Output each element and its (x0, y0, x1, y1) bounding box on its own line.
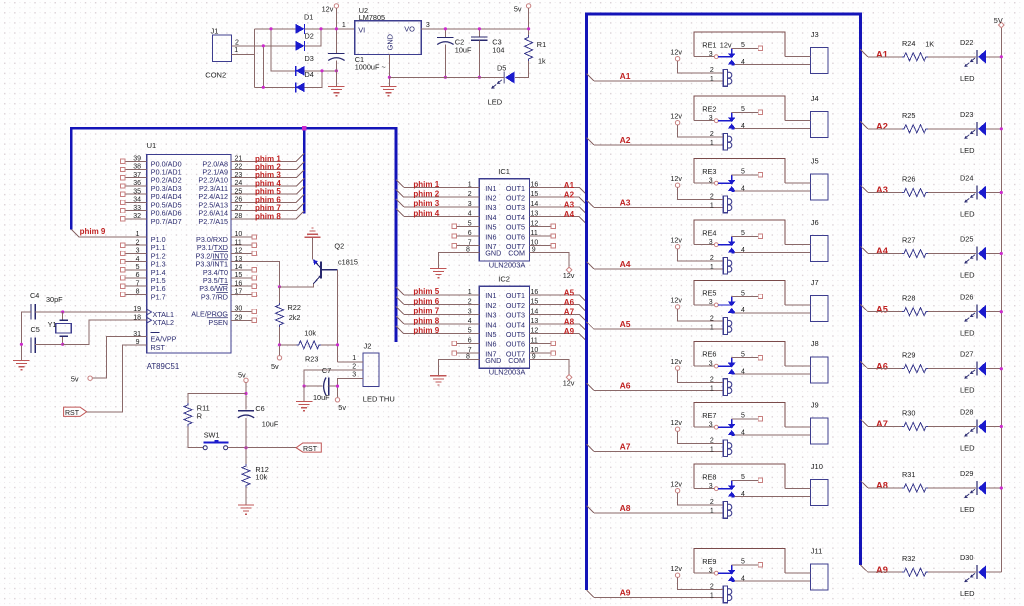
svg-text:OUT5: OUT5 (506, 330, 525, 339)
svg-text:IN1: IN1 (485, 291, 496, 300)
wire (868, 368, 902, 370)
wire (868, 192, 902, 194)
wire bus entry A3 (587, 200, 594, 207)
svg-text:VO: VO (404, 25, 415, 34)
svg-text:1: 1 (342, 22, 346, 29)
svg-text:IN4: IN4 (485, 320, 496, 329)
svg-text:IN2: IN2 (485, 194, 496, 203)
svg-text:RE2: RE2 (702, 104, 716, 113)
wire 12v to RE4 coil (678, 249, 724, 261)
led row 1: R24 / D22 (860, 38, 1003, 83)
wire phim 8 (pin 28 to bus) (231, 211, 304, 219)
led row 7: R30 / D28 (860, 408, 1003, 453)
wire phim 4 to IC1 IN4 (396, 209, 479, 217)
pin 5 IC1 IN5 n/c (452, 224, 479, 228)
svg-text:RE4: RE4 (702, 228, 716, 237)
pin 12 P3.2/INT0 (196, 248, 257, 261)
pin 37 P0.2/AD2 (121, 172, 182, 185)
svg-text:GND: GND (485, 356, 501, 365)
wire (868, 56, 902, 58)
svg-text:ULN2003A: ULN2003A (489, 260, 526, 269)
ground (380, 87, 396, 96)
wire phim 6 (pin 26 to bus) (231, 195, 304, 203)
svg-text:RE1: RE1 (702, 40, 716, 49)
svg-text:1: 1 (710, 203, 714, 210)
driver IC2 ULN2003A (466, 274, 538, 376)
power port 12v (670, 47, 682, 61)
pin 17 P3.7/RD (201, 289, 257, 302)
svg-text:R26: R26 (902, 175, 915, 184)
svg-text:J6: J6 (811, 218, 819, 227)
svg-text:5v: 5v (338, 403, 346, 412)
power port 12v (670, 479, 682, 493)
junction (269, 27, 272, 30)
svg-text:A4: A4 (620, 259, 631, 269)
svg-text:A9: A9 (620, 588, 631, 598)
svg-text:XTAL2: XTAL2 (153, 318, 174, 327)
wire (928, 128, 976, 130)
transistor Q2 c1815 (313, 242, 358, 284)
svg-text:C7: C7 (322, 366, 331, 375)
wire IC2 OUT3 to bus (A7) (530, 314, 587, 321)
led row 2: R25 / D23 (860, 110, 1003, 155)
svg-text:3: 3 (426, 22, 430, 29)
wire IC1 OUT2 to bus (A2) (530, 197, 587, 204)
relay RE7 outline (694, 403, 785, 428)
svg-text:R32: R32 (902, 554, 915, 563)
relay RE3 outline (694, 159, 785, 184)
net flag RST (pin9) (64, 407, 87, 417)
relay RE4 (694, 228, 810, 274)
capacitor C6 10uF (238, 404, 279, 429)
svg-text:D2: D2 (305, 32, 314, 41)
wire phim 5 to IC2 IN1 (396, 287, 479, 295)
junction (336, 385, 339, 388)
wire A7 to coil (594, 451, 723, 453)
wire R1 to D5 (515, 61, 529, 78)
wire XTAL2 (63, 320, 147, 344)
wire Q2 base down (337, 270, 339, 362)
connector J7 (811, 278, 829, 322)
svg-text:IN3: IN3 (485, 203, 496, 212)
svg-text:phim 2: phim 2 (413, 190, 439, 199)
svg-text:12v: 12v (670, 357, 682, 366)
led row 8: R31 / D29 (860, 469, 1003, 514)
LED D22 (960, 38, 986, 83)
wire A2 to coil (594, 144, 723, 146)
wire RE9 to J11 pin1 (785, 572, 810, 574)
svg-text:5v: 5v (238, 371, 246, 380)
wire 12v to RE3 coil (678, 187, 724, 199)
svg-text:RE6: RE6 (702, 350, 716, 359)
junction (478, 27, 481, 30)
svg-text:4: 4 (136, 256, 140, 263)
wire IC1 OUT1 to bus (A1) (530, 188, 587, 195)
wire RE8 to J10 pin1 (785, 488, 810, 490)
pin 19 XTAL1 (133, 306, 174, 319)
ground (430, 268, 446, 277)
svg-text:A3: A3 (876, 185, 888, 195)
wire 12v down to C1 (335, 8, 337, 53)
wire C7 to ground (303, 386, 305, 401)
svg-text:32: 32 (133, 213, 141, 220)
pin 9 RST (136, 339, 166, 352)
svg-text:D4: D4 (305, 70, 314, 79)
wire pin2 branch down (262, 46, 264, 88)
driver IC1 ULN2003A (466, 167, 538, 269)
svg-text:1000uF ~: 1000uF ~ (355, 62, 386, 71)
svg-text:A4: A4 (876, 246, 889, 256)
wire to rail (986, 571, 1002, 573)
pin 21 P2.0/A8 (202, 156, 242, 169)
pin 36 P0.3/AD3 (121, 180, 182, 193)
power port 5v (514, 4, 531, 14)
svg-text:D3: D3 (305, 54, 314, 63)
relay block RE8 / J10 : row A8 (587, 462, 828, 518)
svg-text:1: 1 (710, 324, 714, 331)
svg-text:36: 36 (133, 180, 141, 187)
pin 33 P0.6/AD6 (121, 205, 182, 218)
svg-text:phim 8: phim 8 (413, 316, 439, 325)
connector J9 (811, 400, 829, 444)
LED D5 (488, 63, 515, 106)
wire J1 pin1 (232, 53, 255, 55)
svg-text:12v: 12v (670, 47, 682, 56)
junction (262, 44, 265, 47)
wire C5 right (35, 343, 63, 345)
pin 12 IC1 OUT5 n/c (530, 224, 556, 228)
wire bus entry A7 (587, 444, 594, 451)
svg-text:A5: A5 (876, 304, 888, 314)
svg-text:37: 37 (133, 172, 141, 179)
junction (478, 76, 481, 79)
microcontroller U1 AT89C51 (147, 141, 231, 371)
wire RE2 to J4 pin1 (785, 120, 810, 122)
wire top row to D1 anode (255, 28, 296, 30)
wire IC2 OUT2 to bus (A6) (530, 305, 587, 312)
svg-text:COM: COM (508, 356, 525, 365)
svg-text:34: 34 (133, 197, 141, 204)
svg-text:12v: 12v (322, 5, 334, 14)
wire phim 7 (pin 27 to bus) (231, 203, 304, 211)
svg-text:12v: 12v (670, 174, 682, 183)
ground (328, 87, 344, 96)
svg-text:J9: J9 (811, 400, 819, 409)
led row 5: R28 / D26 (860, 293, 1003, 338)
resistor R22 2k2 (276, 287, 301, 356)
wire 12v to RE6 coil (678, 370, 724, 382)
pin 7 P1.6 (121, 280, 166, 293)
wire phim 9 (P1.0 to bus) (71, 229, 146, 237)
pin 38 P0.1/AD1 (121, 164, 182, 177)
LED D26 (960, 293, 986, 338)
resistor R31 (902, 470, 928, 492)
pin 18 XTAL2 (133, 314, 174, 327)
svg-text:J5: J5 (811, 156, 819, 165)
svg-text:1: 1 (710, 140, 714, 147)
wire bottom row to D4 cathode (255, 86, 296, 88)
svg-text:R: R (197, 412, 202, 421)
pin 22 P2.1/A9 (202, 164, 242, 177)
power port 5v (R22) (271, 356, 282, 371)
junction (1000, 367, 1003, 370)
connector J10 (811, 462, 829, 506)
wire IC1 GND to ground (438, 252, 479, 268)
svg-text:R30: R30 (902, 409, 915, 418)
pin 3 P1.2 (121, 248, 166, 261)
wire C1 to ground (335, 61, 337, 87)
wire 12v to RE8 coil (678, 493, 724, 505)
svg-text:5: 5 (136, 264, 140, 271)
svg-text:5v: 5v (271, 362, 279, 371)
junction (388, 76, 391, 79)
wire R11 to SW1 (188, 426, 203, 447)
resistor R1 1k (525, 35, 547, 65)
wire 12v to RE2 coil (678, 125, 724, 137)
pin 11 P3.1/TXD (197, 239, 257, 252)
svg-text:J10: J10 (811, 462, 823, 471)
wire phim 7 to IC2 IN3 (396, 306, 479, 314)
junction (20, 343, 23, 346)
resistor R23 10k (280, 328, 338, 363)
svg-text:P1.7: P1.7 (151, 292, 166, 301)
svg-text:AT89C51: AT89C51 (147, 362, 179, 371)
pin 34 P0.5/AD5 (121, 197, 182, 210)
svg-text:OUT4: OUT4 (506, 213, 525, 222)
svg-text:3: 3 (136, 248, 140, 255)
junction (1000, 486, 1003, 489)
svg-text:C5: C5 (31, 325, 40, 334)
svg-text:3: 3 (709, 360, 713, 367)
relay block RE9 / J11 : row A9 (587, 546, 828, 602)
wire gnd rail (389, 76, 504, 78)
relay RE8 outline (694, 464, 785, 489)
wire to rail (986, 368, 1002, 370)
junction (1000, 55, 1003, 58)
junction (61, 343, 64, 346)
svg-text:2k2: 2k2 (289, 313, 301, 322)
capacitor C7 10uF (304, 366, 337, 402)
svg-text:OUT1: OUT1 (506, 291, 525, 300)
pin 2 P1.1 (121, 239, 166, 252)
wire bus entry A9 (587, 590, 594, 597)
svg-text:3: 3 (709, 567, 713, 574)
svg-text:J4: J4 (811, 94, 819, 103)
wire (928, 311, 976, 313)
svg-text:IN5: IN5 (485, 223, 496, 232)
wire (928, 192, 976, 194)
LED D30 (960, 553, 986, 598)
wire bus entry A6 (587, 383, 594, 390)
wire A5 to coil (594, 328, 723, 330)
svg-text:D28: D28 (960, 408, 973, 417)
junction (319, 27, 322, 30)
svg-text:Y1: Y1 (48, 320, 57, 329)
junction (527, 27, 530, 30)
wire bus entry A2 (587, 138, 594, 145)
resistor R25 (902, 111, 928, 133)
svg-text:A2: A2 (876, 121, 888, 131)
wire to rail (986, 253, 1002, 255)
svg-text:3: 3 (709, 177, 713, 184)
power port 12v (670, 111, 682, 125)
junction (1000, 191, 1003, 194)
svg-text:OUT2: OUT2 (506, 301, 525, 310)
resistor R30 (902, 409, 928, 431)
power port 12v (563, 267, 575, 280)
svg-text:30pF: 30pF (46, 295, 63, 304)
wire (928, 253, 976, 255)
wire 5V rail (1000, 28, 1002, 572)
svg-text:SW1: SW1 (204, 430, 220, 439)
relay RE1 (694, 40, 810, 86)
wire to rail (986, 311, 1002, 313)
relay RE2 outline (694, 96, 785, 121)
relay block RE2 / J4 : row A2 (587, 94, 828, 150)
power port 12v (670, 235, 682, 249)
svg-text:3: 3 (709, 51, 713, 58)
wire RE1 to J3 pin1 (785, 56, 810, 58)
svg-text:RE8: RE8 (702, 472, 716, 481)
wire IC2 OUT5 to bus (A9) (530, 334, 587, 341)
power port 12v (670, 296, 682, 309)
wire (868, 487, 902, 489)
svg-text:12v: 12v (670, 564, 682, 573)
ground (430, 376, 446, 385)
junction (335, 27, 338, 30)
svg-text:D23: D23 (960, 110, 973, 119)
LED D24 (960, 174, 986, 219)
svg-text:OUT5: OUT5 (506, 223, 525, 232)
LED D23 (960, 110, 986, 155)
wire RST to pin 9 (87, 345, 147, 412)
pin 26 P2.5/A13 (198, 197, 242, 210)
power port 12v (670, 357, 682, 371)
svg-text:IN6: IN6 (485, 232, 496, 241)
ground (238, 505, 254, 514)
svg-text:IN6: IN6 (485, 340, 496, 349)
wire J2 pin3 to 5v (338, 378, 363, 397)
wire D3 anode to gnd rail (305, 70, 337, 72)
svg-text:R23: R23 (305, 354, 318, 363)
wire C4/C5 left to ground (21, 312, 31, 361)
wire IC2 GND to ground (438, 360, 479, 376)
wire (928, 487, 976, 489)
relay block RE7 / J9 : row A7 (587, 400, 828, 456)
wire to rail (986, 487, 1002, 489)
svg-text:LED: LED (960, 386, 975, 395)
connector J2 LED THU (352, 342, 395, 404)
svg-text:phim 9: phim 9 (413, 326, 439, 335)
power port 5v (J2) (335, 398, 346, 413)
svg-text:phim 5: phim 5 (413, 287, 439, 296)
junction (320, 69, 323, 72)
wire (928, 571, 976, 573)
wire A9 to coil (594, 597, 723, 599)
wire pin13 to junction (231, 262, 280, 287)
svg-text:R25: R25 (902, 111, 915, 120)
svg-text:A6: A6 (564, 298, 575, 307)
LED D25 (960, 235, 986, 280)
svg-text:D26: D26 (960, 293, 973, 302)
svg-text:12v: 12v (670, 111, 682, 120)
svg-text:A8: A8 (876, 481, 888, 491)
svg-text:A1: A1 (620, 71, 631, 81)
svg-text:12v: 12v (670, 235, 682, 244)
relay block RE1 / J3 : row A1 (587, 30, 828, 86)
svg-text:D1: D1 (304, 12, 313, 21)
junction (262, 86, 265, 89)
svg-text:12v: 12v (670, 296, 682, 305)
svg-text:ULN2003A: ULN2003A (489, 368, 526, 377)
svg-text:R29: R29 (902, 351, 915, 360)
svg-text:1: 1 (710, 593, 714, 600)
svg-text:A7: A7 (876, 419, 888, 429)
svg-text:LED: LED (960, 74, 975, 83)
wire bus exit A4 (860, 246, 868, 253)
svg-text:5V: 5V (994, 16, 1003, 25)
svg-text:12v: 12v (670, 479, 682, 488)
pin 7 IC2 IN7 n/c (452, 351, 479, 355)
voltage regulator U2 LM7805 (342, 6, 430, 55)
svg-text:IN1: IN1 (485, 184, 496, 193)
svg-text:RST: RST (303, 446, 318, 453)
svg-text:1: 1 (352, 355, 356, 362)
pin 6 IC2 IN6 n/c (452, 341, 479, 345)
wire A8 to coil (594, 512, 723, 514)
svg-text:D5: D5 (497, 63, 506, 72)
svg-text:35: 35 (133, 188, 141, 195)
pin 6 P1.5 (121, 272, 166, 285)
svg-text:38: 38 (133, 164, 141, 171)
svg-text:A2: A2 (620, 135, 631, 145)
svg-text:J2: J2 (364, 342, 372, 351)
svg-text:D25: D25 (960, 235, 973, 244)
svg-text:J8: J8 (811, 339, 819, 348)
pin 27 P2.6/A14 (198, 205, 242, 218)
wire (868, 311, 902, 313)
capacitor C2 10uF (437, 29, 472, 78)
svg-text:A2: A2 (564, 191, 575, 200)
svg-text:A9: A9 (876, 565, 888, 575)
wire RE5 to J7 pin1 (785, 304, 810, 306)
svg-text:R27: R27 (902, 236, 915, 245)
bus phim (U1 to IC1/IC2) (71, 126, 396, 342)
pin 15 P3.5/T1 (203, 272, 257, 285)
relay RE7 (694, 411, 810, 457)
svg-text:OUT3: OUT3 (506, 203, 525, 212)
svg-text:C4: C4 (30, 291, 39, 300)
wire phim 3 to IC1 IN3 (396, 199, 479, 207)
svg-text:OUT2: OUT2 (506, 194, 525, 203)
wire bus exit A6 (860, 361, 868, 368)
wire rail to D5 (389, 76, 504, 78)
svg-text:3: 3 (709, 299, 713, 306)
wire A4 to coil (594, 268, 723, 270)
wire U2 GND down (388, 54, 390, 86)
svg-text:phim 8: phim 8 (255, 212, 281, 221)
svg-text:OUT4: OUT4 (506, 320, 525, 329)
svg-text:D30: D30 (960, 553, 973, 562)
svg-text:LED: LED (960, 146, 975, 155)
svg-text:R31: R31 (902, 470, 915, 479)
pin 23 P2.2/A10 (198, 172, 242, 185)
relay block RE6 / J8 : row A6 (587, 339, 828, 395)
svg-text:RE9: RE9 (702, 557, 716, 566)
svg-text:LM7805: LM7805 (359, 13, 385, 22)
svg-text:D29: D29 (960, 469, 973, 478)
pin 16 P3.6/WR (199, 280, 256, 293)
